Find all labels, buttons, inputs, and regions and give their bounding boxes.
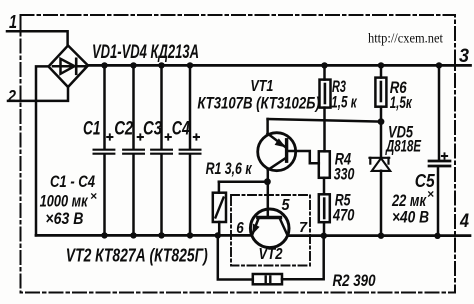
svg-text:×63 В: ×63 В xyxy=(45,209,83,228)
svg-text:1: 1 xyxy=(9,12,17,32)
svg-text:5: 5 xyxy=(282,197,291,214)
svg-text:С1 - С4: С1 - С4 xyxy=(50,172,95,191)
svg-text:1,5 к: 1,5 к xyxy=(331,93,357,112)
svg-text:R2 390: R2 390 xyxy=(333,271,376,290)
svg-text:C2: C2 xyxy=(114,118,133,139)
svg-text:470: 470 xyxy=(332,206,355,225)
svg-text:VT2 КТ827А (КТ825Г): VT2 КТ827А (КТ825Г) xyxy=(66,246,208,266)
svg-text:6: 6 xyxy=(236,220,244,237)
svg-text:330: 330 xyxy=(334,165,355,184)
svg-text:×: × xyxy=(90,189,97,203)
svg-text:VT2: VT2 xyxy=(259,246,283,263)
svg-text:Д818Е: Д818Е xyxy=(385,137,422,156)
svg-text:×: × xyxy=(427,187,434,201)
svg-text:7: 7 xyxy=(299,219,308,236)
svg-text:VT1: VT1 xyxy=(250,78,273,95)
svg-text:3: 3 xyxy=(459,46,469,67)
svg-text:2: 2 xyxy=(7,87,16,106)
svg-text:КТ3107В (КТ3102Б): КТ3107В (КТ3102Б) xyxy=(197,94,320,113)
svg-text:C1: C1 xyxy=(83,118,101,139)
svg-text:R1 3,6 к: R1 3,6 к xyxy=(206,159,253,178)
svg-text:http://cxem.net: http://cxem.net xyxy=(368,31,443,46)
svg-text:1,5к: 1,5к xyxy=(390,93,413,112)
svg-text:C4: C4 xyxy=(172,118,190,139)
svg-text:C3: C3 xyxy=(143,118,162,139)
svg-text:4: 4 xyxy=(459,211,469,232)
svg-text:1000 мк: 1000 мк xyxy=(40,192,89,211)
svg-text:×40 В: ×40 В xyxy=(392,208,429,227)
svg-text:VD1-VD4 КД213А: VD1-VD4 КД213А xyxy=(92,42,199,63)
